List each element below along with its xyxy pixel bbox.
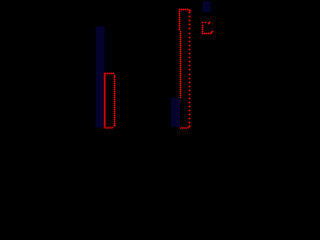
marquee R2 left edge fading last dot	[180, 97, 182, 99]
marquee R1 left edge (solid red line)	[104, 74, 106, 128]
marquee R1 bottom edge (dim zigzag)	[105, 127, 114, 129]
navy bar A (tall, left-center)	[96, 26, 105, 127]
marquee R1 bottom-right corner dot	[113, 124, 116, 127]
navy bar C (small, top-right)	[203, 1, 211, 12]
marquee R3 (small hand-drawn dotted loop, top-right)	[201, 21, 214, 35]
marquee R2 right edge (sparse dotted)	[188, 11, 191, 124]
marquee R1 top edge (dotted)	[104, 72, 115, 75]
marquee R2 bottom edge (dim zigzag)	[180, 127, 190, 129]
marquee R2 left edge (dotted)	[178, 10, 182, 97]
marquee R1 right edge (dotted)	[113, 74, 116, 125]
marquee R2 top-right corner double dot	[188, 9, 192, 12]
marquee R2 top edge (dotted)	[178, 8, 189, 11]
marquee R2 bottom-right corner dot	[188, 125, 191, 128]
navy bar B (short, lower-right)	[171, 98, 180, 127]
